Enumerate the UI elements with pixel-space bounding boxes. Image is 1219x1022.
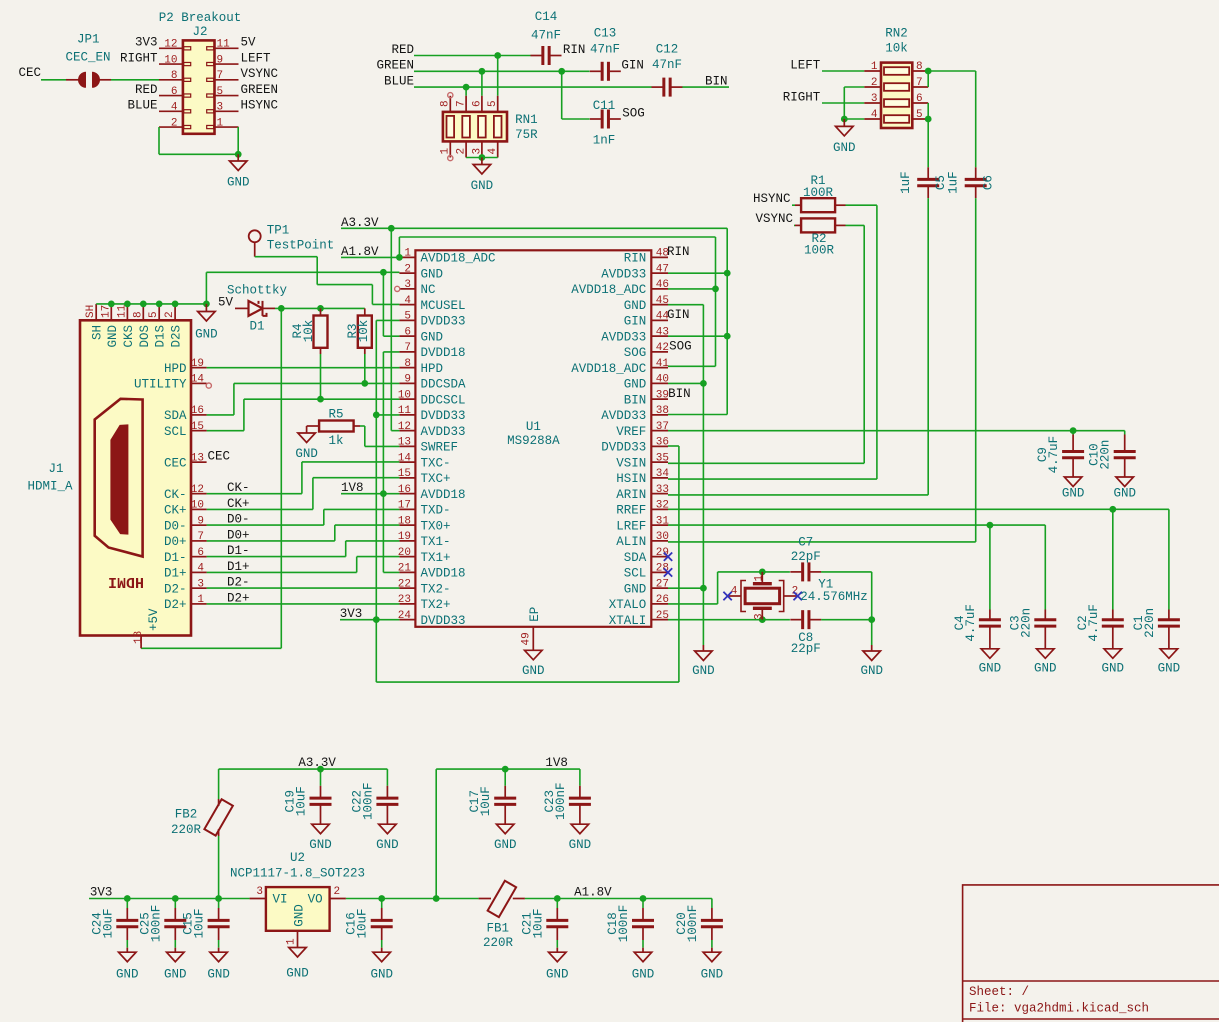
capacitor C16 10uF <box>381 899 383 909</box>
ground below J2 <box>237 154 239 161</box>
capacitor C21 10uF <box>556 899 558 909</box>
svg-text:TX1+: TX1+ <box>421 551 451 565</box>
svg-text:D2+: D2+ <box>227 591 250 605</box>
svg-text:FB1: FB1 <box>487 922 510 936</box>
capacitor C8 22pF <box>801 610 804 629</box>
svg-text:36: 36 <box>656 437 669 449</box>
junction R4 DDCSCL <box>317 396 324 403</box>
U1 pin 11 DVDD33 <box>399 414 415 416</box>
svg-text:D1+: D1+ <box>164 567 187 581</box>
svg-text:XTALI: XTALI <box>609 614 647 628</box>
junction crystal gnd <box>868 616 875 623</box>
capacitor C12 <box>662 78 665 97</box>
wire 1V8 vertical <box>382 352 384 573</box>
U1 pin 20 TX1+ <box>399 556 415 558</box>
svg-text:5: 5 <box>916 109 923 121</box>
svg-text:GND: GND <box>522 664 545 678</box>
wire J2 pin2 down <box>158 127 160 154</box>
ground at C19 <box>312 824 330 834</box>
junction pin2 GND <box>380 269 387 276</box>
svg-text:AVDD33: AVDD33 <box>601 409 646 423</box>
wire D2+ <box>207 603 400 605</box>
junction RN2 pin8 <box>925 68 932 75</box>
svg-text:GND: GND <box>632 968 655 982</box>
svg-text:1nF: 1nF <box>593 134 616 148</box>
svg-text:20: 20 <box>398 547 411 559</box>
svg-text:3V3: 3V3 <box>90 886 113 900</box>
junction 1V8 pin16 <box>380 490 387 497</box>
svg-text:D0-: D0- <box>227 513 250 527</box>
svg-text:TX1-: TX1- <box>421 535 451 549</box>
capacitor C4 4.7uF <box>979 618 1001 621</box>
svg-text:10: 10 <box>398 389 411 401</box>
svg-text:16: 16 <box>398 484 411 496</box>
wire 3V3 to pin24 <box>340 619 399 621</box>
svg-text:D2+: D2+ <box>164 598 187 612</box>
svg-text:2: 2 <box>404 263 411 275</box>
svg-text:SOG: SOG <box>624 346 647 360</box>
junction 5V R4 <box>317 305 324 312</box>
svg-text:GND: GND <box>692 664 715 678</box>
svg-text:U1: U1 <box>526 420 541 434</box>
wire D0- staircase <box>207 524 324 526</box>
J1 HDMI plug inner <box>111 425 128 534</box>
svg-text:AVDD18: AVDD18 <box>421 488 466 502</box>
svg-text:GND: GND <box>295 447 318 461</box>
wire LREF <box>668 524 1045 526</box>
capacitor C22 100nF <box>386 769 388 786</box>
svg-text:VSIN: VSIN <box>616 456 646 470</box>
svg-text:D1S: D1S <box>154 325 168 348</box>
unconnected U1 pin 3 NC <box>395 286 400 291</box>
capacitor C19 10uF <box>320 769 322 786</box>
J1 HDMI plug outline <box>95 399 143 557</box>
resistor network RN1 element 3 <box>478 116 486 138</box>
junction crystal pin1 <box>759 569 766 576</box>
U1 pin 34 HSIN <box>651 477 668 479</box>
wire RED <box>414 55 531 57</box>
junction shield <box>124 301 131 308</box>
svg-text:3: 3 <box>256 886 263 898</box>
svg-text:D0+: D0+ <box>227 528 250 542</box>
resistor R2 100R <box>794 224 795 226</box>
svg-text:31: 31 <box>656 515 670 527</box>
junction shield <box>140 301 147 308</box>
resistor network RN1 element 2 <box>462 116 470 138</box>
capacitor C1 220n <box>1158 618 1180 621</box>
ground below RN1 <box>481 158 483 165</box>
svg-text:CEC: CEC <box>164 456 187 470</box>
wire JP1 to J2 pin 8 <box>111 79 159 81</box>
ground at crystal <box>871 620 873 645</box>
connector J2 pin 8 <box>159 79 183 81</box>
U1 pin 17 TXD- <box>399 508 415 510</box>
svg-text:AVDD33: AVDD33 <box>601 267 646 281</box>
resistor network RN1 element 4 <box>494 116 502 138</box>
resistor R5 1k <box>307 425 320 427</box>
wire HPD <box>207 367 400 369</box>
svg-text:VO: VO <box>308 892 323 906</box>
svg-text:38: 38 <box>656 405 669 417</box>
svg-text:J2: J2 <box>192 25 207 39</box>
svg-text:100nF: 100nF <box>686 905 700 943</box>
svg-text:BLUE: BLUE <box>384 75 414 89</box>
svg-text:43: 43 <box>656 326 669 338</box>
wire R1 to HSIN <box>846 204 877 206</box>
svg-text:HSIN: HSIN <box>616 472 646 486</box>
svg-text:GND: GND <box>164 968 187 982</box>
U1 pin 24 DVDD33 <box>399 619 415 621</box>
svg-text:C7: C7 <box>798 536 813 550</box>
svg-text:4: 4 <box>487 148 499 155</box>
svg-text:47nF: 47nF <box>652 58 682 72</box>
wire SCL stub <box>207 430 244 432</box>
svg-text:12: 12 <box>191 484 204 496</box>
svg-text:GND: GND <box>569 838 592 852</box>
junction RN2 pin5 <box>925 116 932 123</box>
junction R3 DDCSDA <box>361 380 368 387</box>
wire RN2 pin6 to pin5 <box>927 103 929 119</box>
J1 pin 6 D1- <box>191 556 207 558</box>
svg-text:J1: J1 <box>48 462 63 476</box>
svg-text:4: 4 <box>871 109 878 121</box>
svg-text:+5V: +5V <box>147 608 161 631</box>
svg-text:10: 10 <box>164 54 177 66</box>
wire RREF <box>668 508 1169 510</box>
wire CK- staircase <box>207 493 302 495</box>
wire C8 to gnd <box>821 619 872 621</box>
wire DDCSDA row <box>234 382 400 384</box>
svg-text:CEC: CEC <box>18 66 41 80</box>
U1 pin 13 SWREF <box>399 445 415 447</box>
connector J2 pin 1 <box>215 126 239 128</box>
ground at C15 <box>218 948 220 953</box>
wire C5 to ARIN <box>927 198 929 495</box>
svg-text:42: 42 <box>656 342 669 354</box>
svg-text:6: 6 <box>404 326 411 338</box>
svg-text:SDA: SDA <box>624 551 647 565</box>
ground at C4 <box>981 649 999 659</box>
resistor network RN2 element 1 <box>884 67 909 75</box>
ground at C16 <box>381 948 383 953</box>
svg-text:22: 22 <box>398 578 411 590</box>
svg-text:MCUSEL: MCUSEL <box>421 299 466 313</box>
U1 pin 26 XTALO <box>651 603 668 605</box>
svg-text:3V3: 3V3 <box>340 607 363 621</box>
junction A1.8V pin1 <box>396 254 403 261</box>
svg-text:1: 1 <box>197 594 204 606</box>
connector J2 pin 10 <box>159 63 183 65</box>
junction C17 <box>502 766 509 773</box>
svg-text:AVDD18_ADC: AVDD18_ADC <box>571 362 646 376</box>
U1 pin 44 GIN <box>651 319 668 321</box>
svg-text:15: 15 <box>191 421 204 433</box>
U1 pin 48 RIN <box>651 256 668 258</box>
svg-text:TX2-: TX2- <box>421 582 451 596</box>
U1 pin 18 TX0+ <box>399 524 415 526</box>
wire 5V down to HDMI pin18 <box>280 308 282 648</box>
svg-text:10k: 10k <box>885 41 908 55</box>
svg-text:100R: 100R <box>803 186 834 200</box>
svg-text:15: 15 <box>398 468 411 480</box>
junction shield gnd <box>203 301 210 308</box>
svg-text:5: 5 <box>487 100 499 107</box>
svg-text:CK-: CK- <box>164 488 187 502</box>
svg-text:46: 46 <box>656 279 669 291</box>
svg-text:7: 7 <box>456 100 468 107</box>
wire SOG branch <box>561 71 563 119</box>
wire VO rail <box>346 898 479 900</box>
svg-text:26: 26 <box>656 594 669 606</box>
wire pin46 AVDD18_ADC <box>668 288 716 290</box>
svg-text:D1-: D1- <box>227 544 250 558</box>
wire LEFT to RN2 pin1 <box>822 70 864 72</box>
wire D1+ staircase <box>207 571 357 573</box>
svg-text:SCL: SCL <box>624 567 647 581</box>
ground at C23 <box>571 824 589 834</box>
svg-text:CKS: CKS <box>122 325 136 348</box>
svg-text:A3.3V: A3.3V <box>298 756 336 770</box>
junction GND pin40 <box>700 380 707 387</box>
svg-text:D1-: D1- <box>164 551 187 565</box>
connector J2 pin 11 <box>215 47 239 49</box>
svg-text:HSYNC: HSYNC <box>753 192 791 206</box>
svg-text:13: 13 <box>191 452 204 464</box>
wire R3 to DDCSDA <box>364 354 366 383</box>
J1 pin 19 HPD <box>191 367 207 369</box>
wire J2 pin1 down <box>237 127 239 154</box>
svg-text:10uF: 10uF <box>193 908 207 938</box>
junction C19 <box>317 766 324 773</box>
junction A3.3V left <box>388 225 395 232</box>
svg-text:35: 35 <box>656 452 669 464</box>
svg-text:220n: 220n <box>1099 440 1113 470</box>
U1 pin 16 AVDD18 <box>399 493 415 495</box>
J1 pin 7 D0+ <box>191 540 207 542</box>
U1 pin 23 TX2+ <box>399 603 415 605</box>
svg-text:9: 9 <box>197 515 204 527</box>
svg-text:DVDD33: DVDD33 <box>421 614 466 628</box>
svg-text:10k: 10k <box>302 320 316 343</box>
svg-text:9: 9 <box>404 374 411 386</box>
svg-text:RIN: RIN <box>563 43 586 57</box>
svg-text:C14: C14 <box>535 10 558 24</box>
no-connect U1 SDA <box>664 552 672 560</box>
junction A1.8V pin46 <box>712 286 719 293</box>
wire 3V3 rail <box>89 898 250 900</box>
wire C6 to ALIN <box>975 198 977 542</box>
svg-text:GND: GND <box>1158 661 1181 675</box>
svg-text:UTILITY: UTILITY <box>134 378 187 392</box>
capacitor C7 22pF <box>801 562 804 581</box>
capacitor C24 10uF <box>126 899 128 909</box>
svg-text:DVDD33: DVDD33 <box>421 409 466 423</box>
U1 pin 28 SCL <box>651 571 668 573</box>
svg-text:10uF: 10uF <box>479 786 493 816</box>
svg-text:7: 7 <box>217 70 224 82</box>
U1 pin 19 TX1- <box>399 540 415 542</box>
wire BLUE to RN1 pin7 <box>465 87 467 96</box>
resistor network RN2 element 4 <box>884 115 909 123</box>
svg-text:75R: 75R <box>515 128 538 142</box>
svg-text:AVDD18: AVDD18 <box>421 567 466 581</box>
svg-text:RIGHT: RIGHT <box>783 90 821 104</box>
svg-text:TP1: TP1 <box>267 224 290 238</box>
svg-text:JP1: JP1 <box>77 32 100 46</box>
wire pin2 GND <box>206 271 399 273</box>
wire C7 to gnd <box>821 571 872 573</box>
J1 top pin SH <box>95 304 97 320</box>
svg-text:17: 17 <box>398 500 411 512</box>
svg-text:24: 24 <box>398 610 412 622</box>
junction C16 <box>378 895 385 902</box>
svg-text:AVDD33: AVDD33 <box>601 330 646 344</box>
svg-text:DDCSDA: DDCSDA <box>421 378 467 392</box>
svg-text:C12: C12 <box>656 42 679 56</box>
svg-text:A1.8V: A1.8V <box>574 886 612 900</box>
U1 pin 2 GND <box>399 272 415 274</box>
svg-text:TX2+: TX2+ <box>421 598 451 612</box>
svg-text:8: 8 <box>171 70 178 82</box>
svg-text:3V3: 3V3 <box>135 36 158 50</box>
svg-text:3: 3 <box>871 93 878 105</box>
svg-text:24.576MHz: 24.576MHz <box>800 590 868 604</box>
wire J1 shield bus <box>96 303 206 305</box>
svg-text:BIN: BIN <box>624 393 647 407</box>
wire GND to HDMI shield rail <box>205 272 207 304</box>
wire SCL riser <box>243 399 245 431</box>
connector J2 pin 2 <box>159 126 183 128</box>
U1 pin 49 EP <box>532 627 534 651</box>
svg-text:3: 3 <box>404 279 411 291</box>
svg-text:16: 16 <box>191 405 204 417</box>
svg-text:GND: GND <box>1062 487 1085 501</box>
svg-text:21: 21 <box>398 563 412 575</box>
svg-text:100nF: 100nF <box>554 782 568 820</box>
svg-text:13: 13 <box>398 437 411 449</box>
ground below U2 <box>289 948 307 958</box>
svg-text:XTALO: XTALO <box>609 598 647 612</box>
svg-text:BIN: BIN <box>705 75 728 89</box>
capacitor C2 4.7uF <box>1102 618 1124 621</box>
wire pin43 AVDD33 <box>668 335 727 337</box>
unconnected RN1 pin 8 <box>448 93 453 98</box>
J1 top pin 5 <box>158 304 160 320</box>
wire A3.3V top rail <box>219 768 388 770</box>
wire RN2 pin4 <box>844 118 864 120</box>
U1 pin 43 AVDD33 <box>651 335 668 337</box>
svg-text:18: 18 <box>398 515 411 527</box>
U1 pin 5 DVDD33 <box>399 319 415 321</box>
J1 top pin 11 <box>126 304 128 320</box>
wire A3.3V down to pin12 <box>390 228 392 430</box>
connector J2 pin 3 <box>215 110 239 112</box>
capacitor C5 1uF <box>917 178 939 181</box>
wire A1.8V right drop <box>715 237 717 366</box>
svg-text:SDA: SDA <box>164 409 187 423</box>
svg-text:LREF: LREF <box>616 519 646 533</box>
svg-text:3: 3 <box>197 578 204 590</box>
U1 pin 29 SDA <box>651 556 668 558</box>
svg-text:GREEN: GREEN <box>241 83 279 97</box>
wire R5 to SWREF <box>360 425 365 427</box>
svg-text:6: 6 <box>171 86 178 98</box>
capacitor C11 <box>601 110 604 129</box>
svg-text:RIGHT: RIGHT <box>120 51 158 65</box>
svg-text:8: 8 <box>132 311 144 318</box>
wire D2- <box>207 587 400 589</box>
wire RN2 pin5 to C5 <box>927 119 929 167</box>
resistor network RN1 element 1 <box>447 116 455 138</box>
svg-text:VI: VI <box>273 892 288 906</box>
wire 3V3 underroute <box>376 681 679 683</box>
svg-text:1: 1 <box>440 148 452 155</box>
wire C10 column <box>1124 431 1126 435</box>
U1 pin 10 DDCSCL <box>399 398 415 400</box>
junction shield <box>108 301 115 308</box>
wire SDA stub <box>207 414 234 416</box>
junction 3V3 rail <box>124 895 131 902</box>
svg-text:TestPoint: TestPoint <box>267 239 335 253</box>
svg-text:GND: GND <box>1034 661 1057 675</box>
svg-text:11: 11 <box>217 39 231 51</box>
ground at R5 <box>306 426 308 433</box>
svg-text:39: 39 <box>656 389 669 401</box>
svg-text:5: 5 <box>217 86 224 98</box>
U1 pin 9 DDCSDA <box>399 382 415 384</box>
svg-text:RN1: RN1 <box>515 113 538 127</box>
U1 pin 47 AVDD33 <box>651 272 668 274</box>
svg-text:DVDD33: DVDD33 <box>421 315 466 329</box>
resistor R1 100R <box>792 204 795 206</box>
svg-text:47: 47 <box>656 263 669 275</box>
svg-text:SWREF: SWREF <box>421 441 459 455</box>
crystal Y1 24.576MHz <box>761 572 763 582</box>
ground at C3 <box>1037 649 1055 659</box>
svg-text:TXC-: TXC- <box>421 456 451 470</box>
svg-text:GND: GND <box>833 141 856 155</box>
wire R4 to DDCSCL <box>320 354 322 399</box>
svg-text:GND: GND <box>624 378 647 392</box>
wire pin7 DVDD18 <box>383 351 399 353</box>
svg-text:5: 5 <box>148 311 160 318</box>
svg-text:TXC+: TXC+ <box>421 472 451 486</box>
svg-text:7: 7 <box>404 342 411 354</box>
svg-text:11: 11 <box>398 405 412 417</box>
U1 pin 27 GND <box>651 587 668 589</box>
svg-text:1: 1 <box>871 61 878 73</box>
svg-text:22pF: 22pF <box>791 642 821 656</box>
wire A1.8V riser <box>398 237 400 257</box>
capacitor C23 100nF <box>579 769 581 786</box>
wire 1V8 riser <box>435 769 437 898</box>
svg-text:P2 Breakout: P2 Breakout <box>159 11 242 25</box>
U1 pin 46 AVDD18_ADC <box>651 288 668 290</box>
resistor network RN2 10k body <box>881 63 912 128</box>
wire 5V node <box>275 307 365 309</box>
regulator U2 NCP1117 body <box>250 898 266 900</box>
svg-text:D2-: D2- <box>227 576 250 590</box>
U1 pin 32 RREF <box>651 508 668 510</box>
svg-text:D1+: D1+ <box>227 560 250 574</box>
capacitor C14 <box>541 46 544 65</box>
wire pin47 AVDD33 <box>668 272 727 274</box>
svg-text:D1: D1 <box>249 319 264 333</box>
U1 pin 4 MCUSEL <box>399 304 415 306</box>
svg-text:AVDD18_ADC: AVDD18_ADC <box>571 283 646 297</box>
svg-text:RIN: RIN <box>624 252 647 266</box>
U1 pin 22 TX2- <box>399 587 415 589</box>
